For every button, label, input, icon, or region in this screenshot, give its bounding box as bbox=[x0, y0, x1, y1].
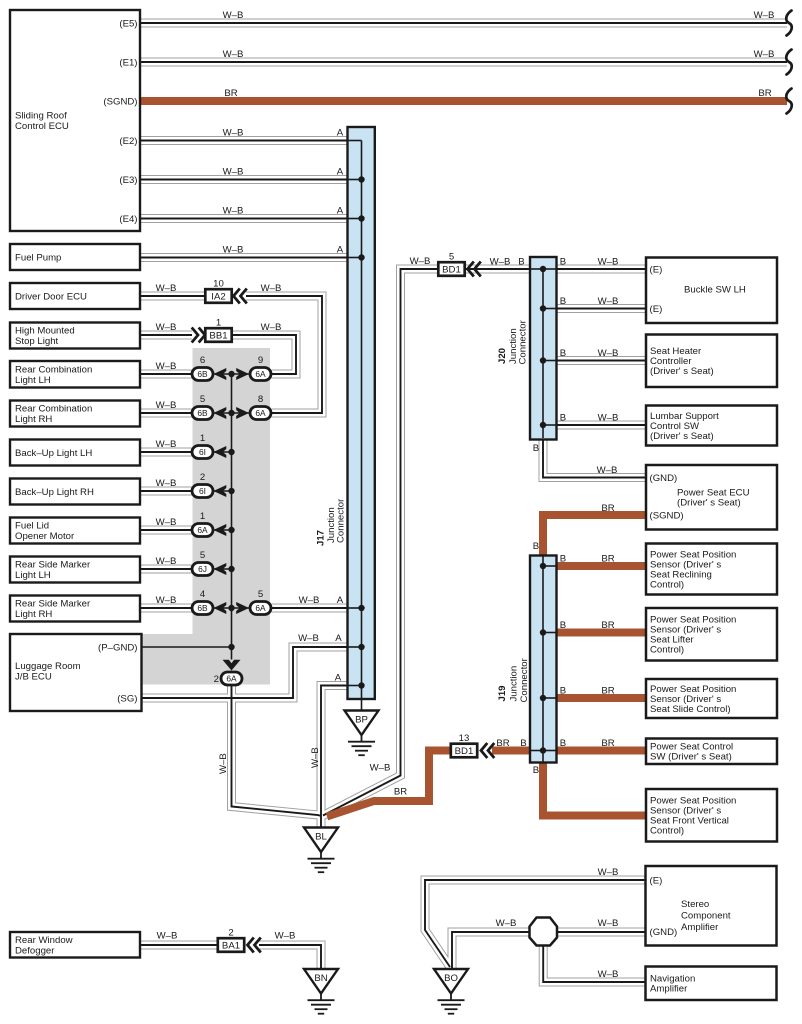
svg-text:(GND): (GND) bbox=[650, 473, 678, 484]
svg-text:J17: J17 bbox=[316, 530, 327, 546]
svg-text:BN: BN bbox=[314, 973, 327, 984]
svg-text:W–B: W–B bbox=[754, 10, 775, 21]
svg-text:W–B: W–B bbox=[598, 918, 619, 929]
svg-text:(E3): (E3) bbox=[119, 175, 137, 186]
svg-text:A: A bbox=[337, 244, 344, 255]
svg-text:Control): Control) bbox=[650, 645, 684, 656]
svg-text:6B: 6B bbox=[197, 603, 208, 613]
svg-text:B: B bbox=[533, 541, 539, 552]
svg-text:Junction: Junction bbox=[509, 666, 520, 702]
svg-text:IA2: IA2 bbox=[211, 291, 225, 302]
svg-text:1: 1 bbox=[216, 318, 221, 329]
svg-text:BR: BR bbox=[601, 553, 614, 564]
svg-text:(Driver' s Seat): (Driver' s Seat) bbox=[650, 431, 714, 442]
svg-text:W–B: W–B bbox=[261, 283, 282, 294]
svg-text:Connector: Connector bbox=[336, 498, 347, 543]
svg-text:6B: 6B bbox=[197, 369, 208, 379]
svg-text:J/B ECU: J/B ECU bbox=[15, 672, 52, 683]
svg-text:8: 8 bbox=[258, 394, 263, 405]
svg-text:Rear Combination: Rear Combination bbox=[15, 364, 92, 375]
svg-text:W–B: W–B bbox=[410, 256, 431, 267]
svg-text:W–B: W–B bbox=[310, 747, 321, 768]
svg-text:W–B: W–B bbox=[275, 930, 296, 941]
svg-text:W–B: W–B bbox=[223, 205, 244, 216]
svg-text:Stereo: Stereo bbox=[681, 899, 709, 910]
svg-text:10: 10 bbox=[213, 279, 224, 290]
svg-text:BB1: BB1 bbox=[209, 330, 227, 341]
svg-text:Control ECU: Control ECU bbox=[15, 121, 69, 132]
svg-text:Component: Component bbox=[681, 910, 731, 921]
svg-text:Control): Control) bbox=[650, 826, 684, 837]
svg-text:(Driver' s Seat): (Driver' s Seat) bbox=[650, 366, 714, 377]
svg-text:Light LH: Light LH bbox=[15, 375, 51, 386]
svg-text:W–B: W–B bbox=[156, 517, 177, 528]
svg-text:5: 5 bbox=[258, 589, 263, 600]
svg-text:W–B: W–B bbox=[156, 361, 177, 372]
svg-text:Back–Up Light RH: Back–Up Light RH bbox=[15, 487, 94, 498]
svg-text:BR: BR bbox=[601, 685, 614, 696]
svg-text:B: B bbox=[560, 256, 566, 267]
svg-text:W–B: W–B bbox=[598, 256, 619, 267]
svg-text:13: 13 bbox=[459, 733, 470, 744]
svg-text:2: 2 bbox=[214, 674, 219, 685]
svg-text:B: B bbox=[560, 685, 566, 696]
svg-text:1: 1 bbox=[200, 511, 205, 522]
svg-text:W–B: W–B bbox=[598, 296, 619, 307]
svg-text:5: 5 bbox=[200, 394, 205, 405]
svg-text:W–B: W–B bbox=[496, 918, 517, 929]
svg-text:BP: BP bbox=[355, 715, 368, 726]
svg-text:Light RH: Light RH bbox=[15, 609, 52, 620]
svg-text:B: B bbox=[560, 412, 566, 423]
svg-text:W–B: W–B bbox=[598, 412, 619, 423]
svg-text:BR: BR bbox=[394, 786, 407, 797]
svg-text:B: B bbox=[520, 738, 526, 749]
svg-text:B: B bbox=[560, 348, 566, 359]
svg-text:BR: BR bbox=[601, 738, 614, 749]
svg-text:BR: BR bbox=[601, 503, 614, 514]
svg-text:6A: 6A bbox=[255, 603, 266, 613]
svg-text:A: A bbox=[337, 205, 344, 216]
svg-text:Sliding Roof: Sliding Roof bbox=[15, 110, 67, 121]
svg-text:W–B: W–B bbox=[597, 465, 618, 476]
svg-text:W–B: W–B bbox=[598, 969, 619, 980]
svg-text:Control): Control) bbox=[650, 579, 684, 590]
svg-text:(SGND): (SGND) bbox=[103, 96, 137, 107]
svg-text:9: 9 bbox=[258, 355, 263, 366]
svg-text:6A: 6A bbox=[197, 525, 208, 535]
svg-text:6A: 6A bbox=[255, 408, 266, 418]
svg-text:Light LH: Light LH bbox=[15, 570, 51, 581]
svg-text:Connector: Connector bbox=[518, 319, 529, 364]
svg-text:(SG): (SG) bbox=[117, 693, 137, 704]
svg-text:Rear Combination: Rear Combination bbox=[15, 404, 92, 415]
svg-text:W–B: W–B bbox=[156, 400, 177, 411]
svg-text:Driver Door ECU: Driver Door ECU bbox=[15, 291, 87, 302]
svg-text:W–B: W–B bbox=[156, 283, 177, 294]
svg-text:Buckle SW LH: Buckle SW LH bbox=[684, 284, 746, 295]
svg-text:5: 5 bbox=[449, 252, 454, 263]
svg-text:(E1): (E1) bbox=[119, 57, 137, 68]
svg-text:J20: J20 bbox=[497, 348, 508, 364]
svg-text:W–B: W–B bbox=[156, 556, 177, 567]
svg-text:4: 4 bbox=[200, 589, 206, 600]
svg-text:W–B: W–B bbox=[223, 127, 244, 138]
svg-text:Light RH: Light RH bbox=[15, 414, 52, 425]
svg-text:(E2): (E2) bbox=[119, 136, 137, 147]
svg-text:6I: 6I bbox=[199, 486, 206, 496]
svg-text:A: A bbox=[337, 166, 344, 177]
svg-text:A: A bbox=[335, 672, 342, 683]
svg-text:(E): (E) bbox=[650, 264, 663, 275]
svg-text:W–B: W–B bbox=[223, 10, 244, 21]
svg-text:BR: BR bbox=[496, 738, 509, 749]
svg-text:W–B: W–B bbox=[156, 478, 177, 489]
svg-text:J19: J19 bbox=[497, 685, 508, 701]
svg-text:6A: 6A bbox=[255, 369, 266, 379]
svg-text:Seat Slide Control): Seat Slide Control) bbox=[650, 704, 731, 715]
svg-text:5: 5 bbox=[200, 550, 205, 561]
svg-text:(P–GND): (P–GND) bbox=[98, 642, 137, 653]
svg-text:Rear Window: Rear Window bbox=[15, 935, 73, 946]
svg-text:W–B: W–B bbox=[157, 930, 178, 941]
svg-text:(SGND): (SGND) bbox=[650, 510, 684, 521]
svg-text:Back–Up Light LH: Back–Up Light LH bbox=[15, 448, 92, 459]
svg-text:W–B: W–B bbox=[156, 439, 177, 450]
svg-text:6B: 6B bbox=[197, 408, 208, 418]
svg-text:BA1: BA1 bbox=[222, 940, 240, 951]
svg-text:BR: BR bbox=[758, 88, 771, 99]
svg-text:B: B bbox=[560, 738, 566, 749]
svg-text:B: B bbox=[533, 765, 539, 776]
svg-text:(E4): (E4) bbox=[119, 214, 137, 225]
svg-text:B: B bbox=[533, 443, 539, 454]
svg-text:B: B bbox=[560, 553, 566, 564]
svg-text:W–B: W–B bbox=[223, 166, 244, 177]
svg-text:(E): (E) bbox=[650, 304, 663, 315]
svg-text:W–B: W–B bbox=[223, 49, 244, 60]
svg-text:(E): (E) bbox=[650, 875, 663, 886]
svg-text:2: 2 bbox=[200, 472, 205, 483]
svg-text:BL: BL bbox=[315, 832, 327, 843]
svg-text:B: B bbox=[560, 620, 566, 631]
svg-text:6I: 6I bbox=[199, 447, 206, 457]
svg-text:Stop Light: Stop Light bbox=[15, 336, 59, 347]
svg-text:High Mounted: High Mounted bbox=[15, 326, 75, 337]
svg-text:SW (Driver' s Seat): SW (Driver' s Seat) bbox=[650, 752, 732, 763]
svg-text:W–B: W–B bbox=[754, 49, 775, 60]
svg-text:6: 6 bbox=[200, 355, 205, 366]
svg-text:6J: 6J bbox=[198, 564, 207, 574]
svg-text:(E5): (E5) bbox=[119, 18, 137, 29]
svg-text:BD1: BD1 bbox=[442, 264, 461, 275]
svg-text:W–B: W–B bbox=[218, 753, 229, 774]
svg-text:B: B bbox=[518, 256, 524, 267]
svg-text:W–B: W–B bbox=[156, 322, 177, 333]
svg-text:2: 2 bbox=[228, 928, 233, 939]
svg-text:Rear Side Marker: Rear Side Marker bbox=[15, 599, 91, 610]
svg-text:BR: BR bbox=[224, 88, 237, 99]
svg-text:W–B: W–B bbox=[490, 256, 511, 267]
svg-text:Opener Motor: Opener Motor bbox=[15, 531, 75, 542]
svg-text:Amplifier: Amplifier bbox=[681, 922, 719, 933]
svg-text:(Driver' s Seat): (Driver' s Seat) bbox=[677, 497, 741, 508]
svg-text:6A: 6A bbox=[226, 674, 237, 684]
svg-text:Fuel Lid: Fuel Lid bbox=[15, 521, 49, 532]
svg-text:(GND): (GND) bbox=[650, 927, 678, 938]
svg-text:BD1: BD1 bbox=[455, 746, 474, 757]
svg-text:A: A bbox=[335, 633, 342, 644]
svg-text:Defogger: Defogger bbox=[15, 945, 55, 956]
svg-text:W–B: W–B bbox=[298, 633, 319, 644]
svg-text:B: B bbox=[560, 296, 566, 307]
svg-text:W–B: W–B bbox=[261, 322, 282, 333]
svg-text:W–B: W–B bbox=[370, 762, 391, 773]
svg-text:Fuel Pump: Fuel Pump bbox=[15, 252, 61, 263]
svg-text:W–B: W–B bbox=[598, 867, 619, 878]
svg-text:Rear Side Marker: Rear Side Marker bbox=[15, 560, 91, 571]
svg-text:Luggage Room: Luggage Room bbox=[15, 661, 81, 672]
svg-text:BR: BR bbox=[601, 620, 614, 631]
svg-text:1: 1 bbox=[200, 433, 205, 444]
svg-text:W–B: W–B bbox=[223, 244, 244, 255]
svg-text:Connector: Connector bbox=[519, 657, 530, 702]
svg-text:A: A bbox=[337, 127, 344, 138]
svg-text:W–B: W–B bbox=[598, 348, 619, 359]
svg-text:W–B: W–B bbox=[299, 595, 320, 606]
svg-text:Amplifier: Amplifier bbox=[650, 984, 688, 995]
svg-text:W–B: W–B bbox=[156, 595, 177, 606]
svg-text:BO: BO bbox=[444, 973, 458, 984]
svg-text:A: A bbox=[337, 595, 344, 606]
